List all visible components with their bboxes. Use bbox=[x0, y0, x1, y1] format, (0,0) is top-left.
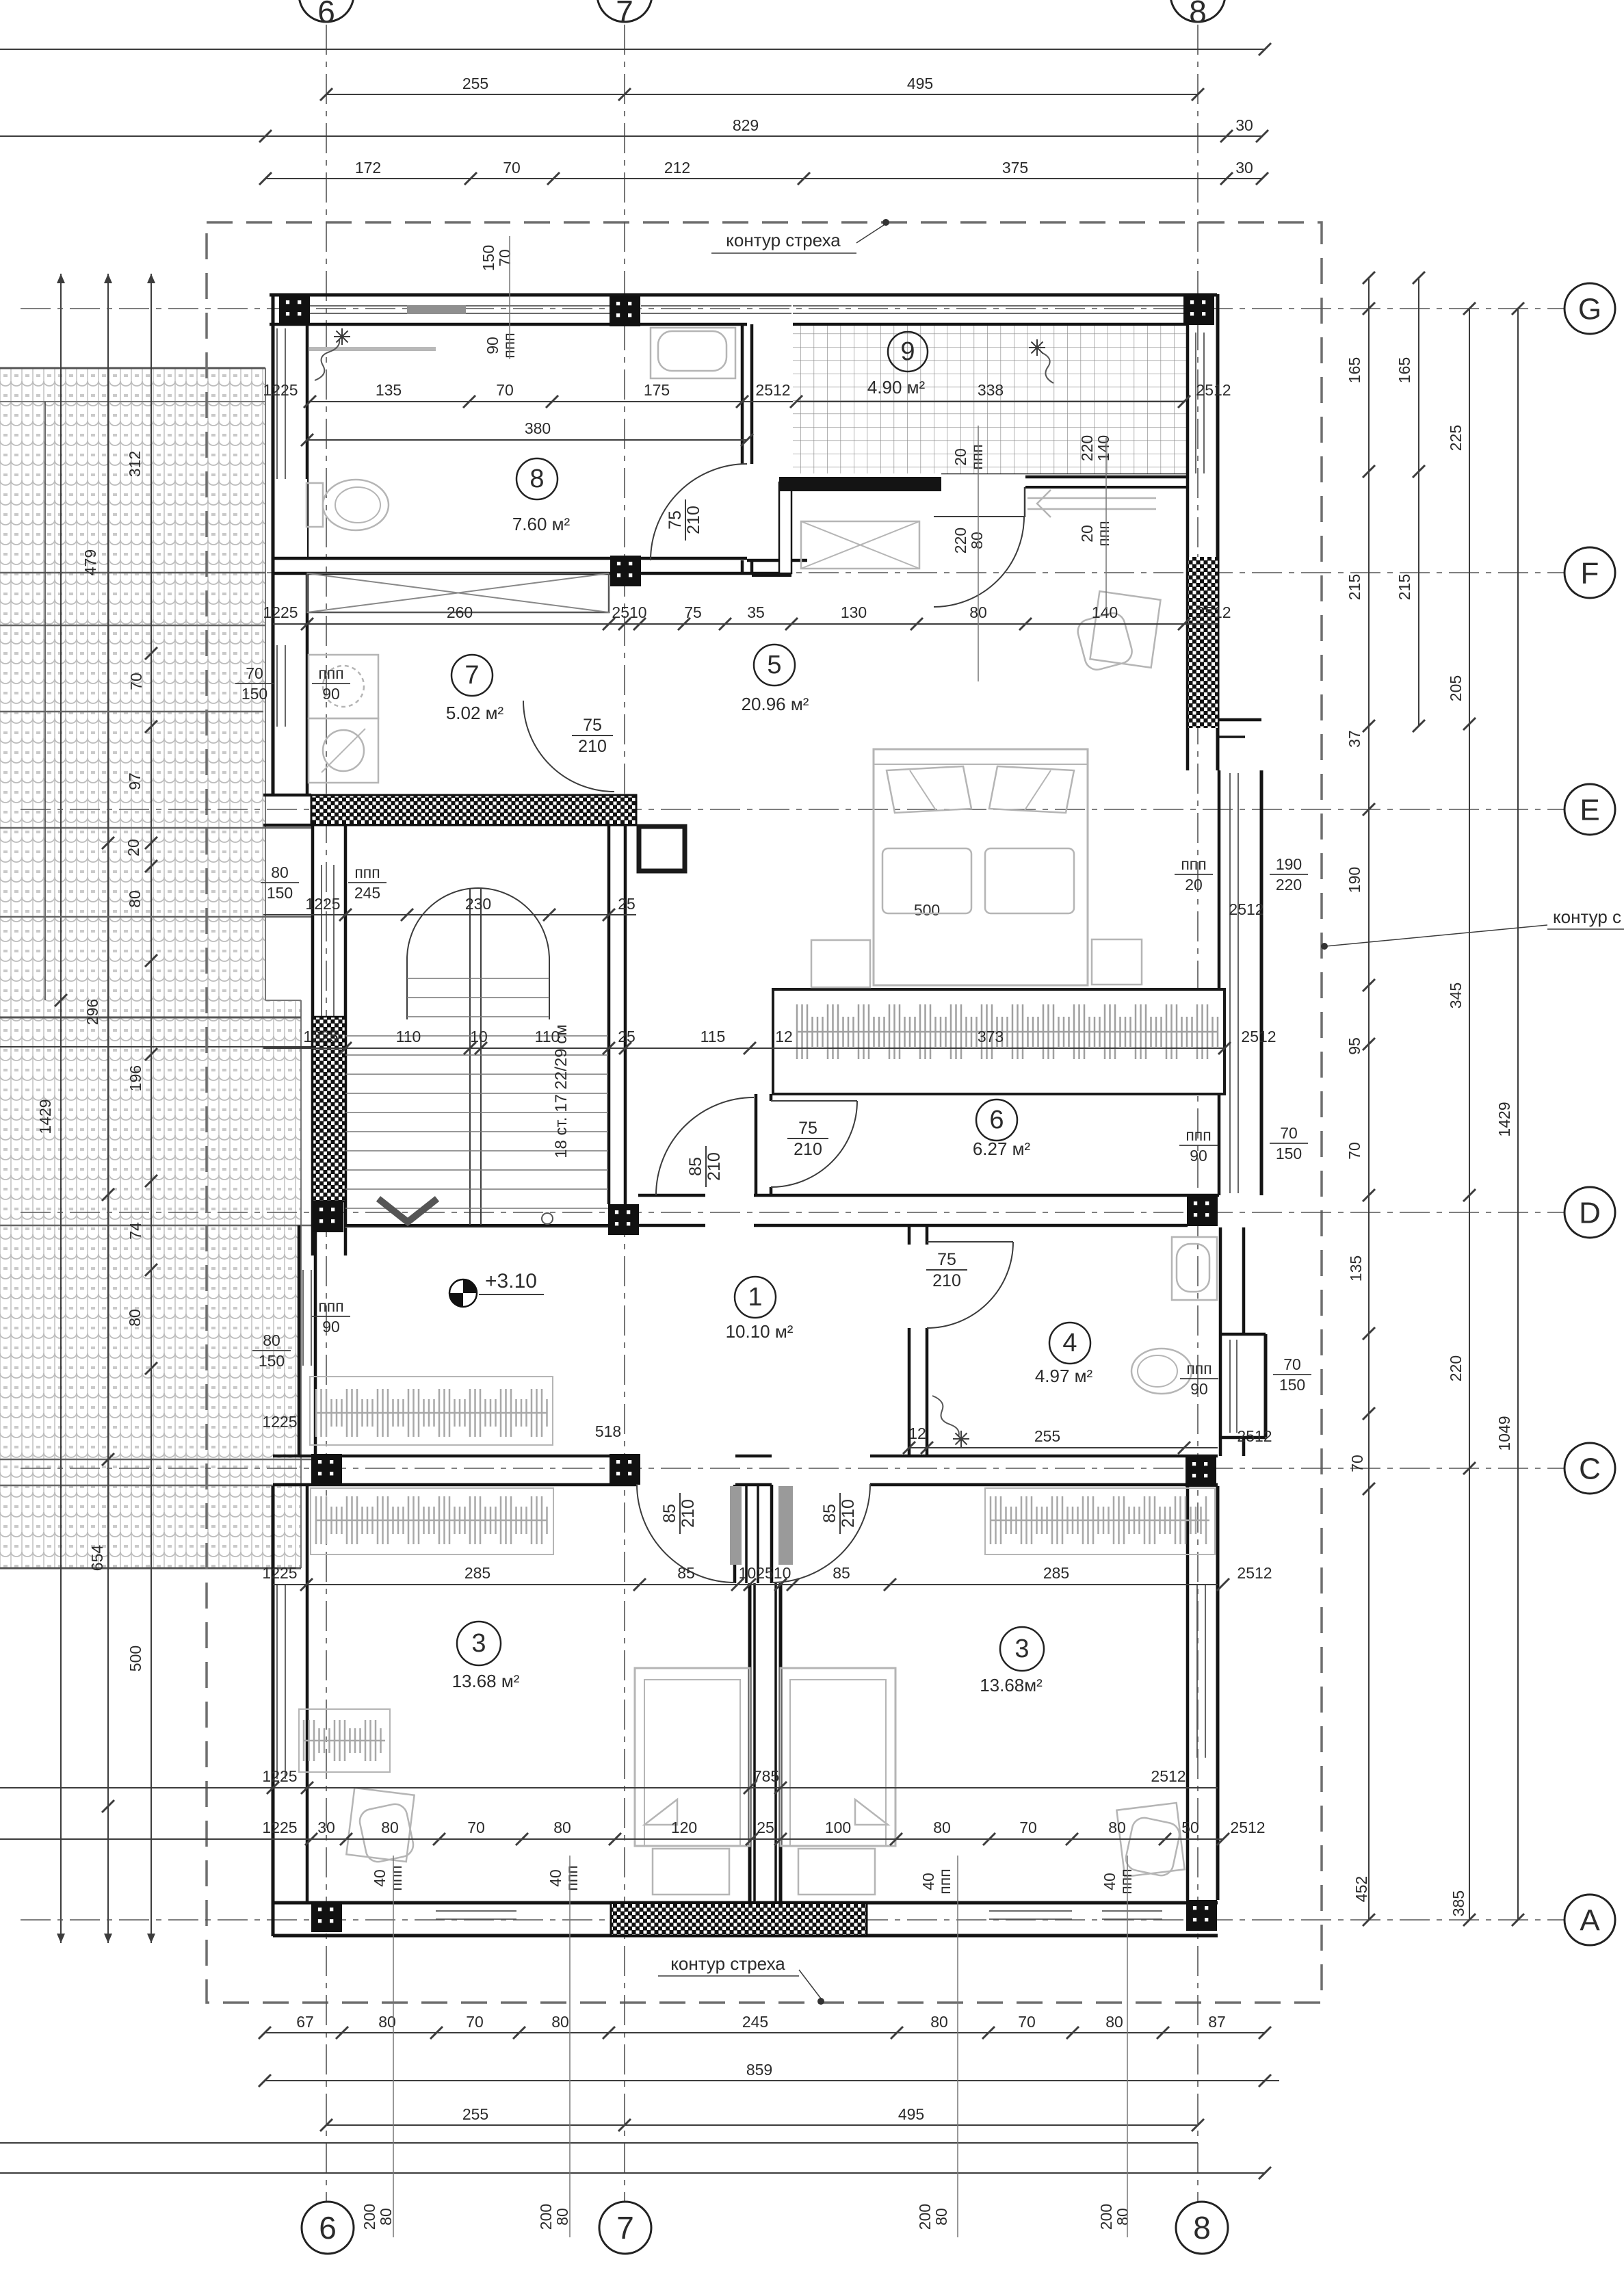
svg-text:215: 215 bbox=[1396, 574, 1413, 600]
svg-text:375: 375 bbox=[1002, 159, 1028, 177]
svg-text:35: 35 bbox=[747, 603, 765, 621]
svg-text:6: 6 bbox=[989, 1106, 1004, 1134]
svg-text:ппп: ппп bbox=[1095, 521, 1112, 546]
svg-text:4: 4 bbox=[1062, 1329, 1077, 1357]
svg-text:80: 80 bbox=[968, 532, 986, 549]
svg-text:контур стреха: контур стреха bbox=[726, 230, 841, 250]
svg-text:12: 12 bbox=[775, 1028, 793, 1045]
svg-text:80: 80 bbox=[933, 1819, 951, 1836]
svg-text:3: 3 bbox=[1014, 1635, 1029, 1663]
svg-text:495: 495 bbox=[898, 2105, 924, 2123]
svg-text:230: 230 bbox=[465, 895, 491, 913]
svg-text:12: 12 bbox=[908, 1424, 926, 1442]
svg-text:80: 80 bbox=[126, 1309, 144, 1327]
svg-text:1225: 1225 bbox=[263, 381, 298, 399]
svg-text:40: 40 bbox=[547, 1869, 564, 1887]
svg-text:1225: 1225 bbox=[262, 1819, 297, 1836]
svg-text:312: 312 bbox=[126, 451, 144, 477]
svg-text:2510: 2510 bbox=[612, 603, 646, 621]
svg-text:150: 150 bbox=[480, 245, 497, 271]
svg-text:785: 785 bbox=[753, 1767, 779, 1785]
svg-text:40: 40 bbox=[1101, 1873, 1118, 1890]
svg-text:75: 75 bbox=[583, 716, 602, 735]
svg-text:70: 70 bbox=[467, 1819, 485, 1836]
svg-text:75: 75 bbox=[798, 1119, 817, 1138]
svg-text:255: 255 bbox=[462, 2105, 488, 2123]
svg-text:210: 210 bbox=[705, 1152, 724, 1181]
svg-text:80: 80 bbox=[377, 2208, 395, 2226]
svg-text:80: 80 bbox=[930, 2013, 948, 2031]
svg-text:495: 495 bbox=[907, 75, 933, 92]
svg-text:30: 30 bbox=[317, 1819, 335, 1836]
svg-text:260: 260 bbox=[447, 603, 473, 621]
svg-text:67: 67 bbox=[296, 2013, 314, 2031]
svg-text:215: 215 bbox=[1346, 574, 1363, 600]
svg-text:ппп: ппп bbox=[1186, 1359, 1212, 1377]
svg-text:172: 172 bbox=[355, 159, 381, 177]
svg-text:1429: 1429 bbox=[36, 1099, 54, 1134]
svg-text:3: 3 bbox=[471, 1629, 486, 1658]
svg-text:E: E bbox=[1580, 793, 1599, 827]
svg-text:338: 338 bbox=[978, 381, 1004, 399]
svg-text:1429: 1429 bbox=[1495, 1102, 1513, 1136]
svg-text:80: 80 bbox=[1105, 2013, 1123, 2031]
svg-text:452: 452 bbox=[1352, 1876, 1370, 1902]
svg-text:1049: 1049 bbox=[1495, 1416, 1513, 1450]
svg-text:385: 385 bbox=[1450, 1890, 1467, 1916]
svg-text:120: 120 bbox=[671, 1819, 697, 1836]
svg-text:80: 80 bbox=[381, 1819, 399, 1836]
svg-text:6: 6 bbox=[317, 0, 335, 29]
svg-text:1225: 1225 bbox=[303, 1028, 338, 1045]
svg-text:2512: 2512 bbox=[1196, 603, 1231, 621]
svg-text:220: 220 bbox=[1447, 1355, 1465, 1381]
svg-text:80: 80 bbox=[263, 1331, 280, 1349]
svg-text:245: 245 bbox=[742, 2013, 768, 2031]
svg-text:150: 150 bbox=[241, 685, 267, 703]
svg-text:1225: 1225 bbox=[305, 895, 340, 913]
svg-text:20: 20 bbox=[1078, 525, 1096, 543]
svg-text:200: 200 bbox=[361, 2204, 378, 2230]
svg-text:859: 859 bbox=[746, 2061, 772, 2079]
svg-text:210: 210 bbox=[679, 1499, 698, 1528]
svg-text:70: 70 bbox=[127, 673, 145, 690]
svg-text:70: 70 bbox=[1346, 1142, 1363, 1160]
svg-text:7: 7 bbox=[616, 2210, 634, 2246]
svg-text:175: 175 bbox=[644, 381, 670, 399]
svg-text:2512: 2512 bbox=[1241, 1028, 1276, 1045]
svg-text:85: 85 bbox=[660, 1504, 679, 1523]
svg-text:110: 110 bbox=[535, 1028, 560, 1045]
svg-text:ппп: ппп bbox=[387, 1865, 405, 1890]
svg-text:85: 85 bbox=[820, 1504, 839, 1523]
svg-text:74: 74 bbox=[127, 1222, 144, 1240]
svg-text:205: 205 bbox=[1447, 675, 1465, 701]
svg-text:20: 20 bbox=[125, 839, 142, 857]
svg-text:2512: 2512 bbox=[1151, 1767, 1186, 1785]
svg-text:70: 70 bbox=[246, 664, 263, 682]
svg-text:80: 80 bbox=[553, 1819, 571, 1836]
svg-text:150: 150 bbox=[1279, 1376, 1305, 1394]
svg-text:ппп: ппп bbox=[500, 333, 518, 358]
svg-text:2512: 2512 bbox=[1230, 1819, 1265, 1836]
svg-text:90: 90 bbox=[322, 1318, 340, 1336]
svg-text:ппп: ппп bbox=[1186, 1126, 1211, 1144]
svg-text:190: 190 bbox=[1346, 867, 1363, 893]
svg-text:110: 110 bbox=[396, 1028, 421, 1045]
svg-text:25: 25 bbox=[757, 1819, 774, 1836]
svg-text:220: 220 bbox=[1078, 435, 1096, 461]
svg-text:ппп: ппп bbox=[354, 863, 380, 881]
svg-text:C: C bbox=[1579, 1452, 1601, 1485]
svg-text:135: 135 bbox=[1347, 1255, 1365, 1281]
svg-text:контур с: контур с bbox=[1553, 907, 1621, 927]
svg-text:контур стреха: контур стреха bbox=[670, 1953, 785, 1974]
svg-text:9: 9 bbox=[900, 337, 915, 366]
svg-text:212: 212 bbox=[664, 159, 690, 177]
svg-text:225: 225 bbox=[1447, 425, 1465, 451]
svg-text:210: 210 bbox=[839, 1499, 858, 1528]
svg-text:150: 150 bbox=[1276, 1145, 1302, 1162]
svg-text:479: 479 bbox=[81, 549, 99, 575]
svg-text:25: 25 bbox=[618, 895, 636, 913]
svg-text:40: 40 bbox=[371, 1869, 389, 1887]
svg-text:518: 518 bbox=[595, 1422, 621, 1440]
svg-text:8: 8 bbox=[1193, 2210, 1211, 2246]
svg-text:90: 90 bbox=[1190, 1380, 1208, 1398]
svg-text:255: 255 bbox=[462, 75, 488, 92]
svg-text:70: 70 bbox=[466, 2013, 484, 2031]
svg-text:6.27 м²: 6.27 м² bbox=[973, 1138, 1031, 1159]
svg-text:2512: 2512 bbox=[1237, 1564, 1272, 1582]
svg-text:150: 150 bbox=[267, 884, 293, 902]
svg-text:5.02 м²: 5.02 м² bbox=[446, 703, 504, 723]
svg-text:380: 380 bbox=[525, 419, 551, 437]
svg-text:ппп: ппп bbox=[563, 1865, 581, 1890]
svg-text:373: 373 bbox=[978, 1028, 1004, 1045]
svg-text:90: 90 bbox=[484, 337, 501, 354]
svg-text:87: 87 bbox=[1208, 2013, 1226, 2031]
svg-text:6: 6 bbox=[319, 2210, 337, 2246]
svg-text:ппп: ппп bbox=[318, 664, 343, 682]
svg-text:20: 20 bbox=[1185, 876, 1203, 894]
svg-text:210: 210 bbox=[684, 506, 703, 534]
svg-text:85: 85 bbox=[677, 1564, 695, 1582]
svg-text:80: 80 bbox=[1108, 1819, 1126, 1836]
svg-text:196: 196 bbox=[127, 1065, 144, 1091]
svg-text:7: 7 bbox=[464, 661, 479, 690]
svg-text:+3.10: +3.10 bbox=[485, 1270, 537, 1292]
svg-text:4.90 м²: 4.90 м² bbox=[867, 377, 926, 398]
svg-text:75: 75 bbox=[666, 510, 685, 530]
svg-text:140: 140 bbox=[1092, 603, 1118, 621]
svg-text:70: 70 bbox=[1018, 2013, 1036, 2031]
svg-text:80: 80 bbox=[271, 863, 289, 881]
svg-text:296: 296 bbox=[83, 999, 101, 1025]
svg-text:220: 220 bbox=[1276, 876, 1302, 894]
svg-text:13.68м²: 13.68м² bbox=[980, 1675, 1043, 1695]
svg-text:165: 165 bbox=[1396, 357, 1413, 383]
svg-text:30: 30 bbox=[1235, 159, 1253, 177]
svg-text:210: 210 bbox=[578, 737, 607, 756]
svg-text:1: 1 bbox=[748, 1283, 762, 1312]
svg-text:210: 210 bbox=[932, 1271, 961, 1290]
svg-text:40: 40 bbox=[919, 1873, 937, 1890]
svg-text:500: 500 bbox=[914, 901, 940, 919]
svg-text:4.97 м²: 4.97 м² bbox=[1035, 1366, 1093, 1386]
svg-text:G: G bbox=[1578, 292, 1601, 326]
svg-text:80: 80 bbox=[1114, 2208, 1131, 2226]
svg-text:85: 85 bbox=[686, 1157, 705, 1176]
svg-text:97: 97 bbox=[126, 772, 144, 790]
svg-text:ппп: ппп bbox=[1181, 855, 1206, 873]
svg-text:1225: 1225 bbox=[262, 1767, 297, 1785]
svg-text:80: 80 bbox=[551, 2013, 569, 2031]
svg-text:7.60 м²: 7.60 м² bbox=[512, 514, 571, 534]
svg-text:255: 255 bbox=[1034, 1427, 1060, 1445]
svg-text:70: 70 bbox=[503, 159, 521, 177]
svg-text:200: 200 bbox=[537, 2204, 555, 2230]
svg-text:70: 70 bbox=[496, 381, 514, 399]
svg-text:100: 100 bbox=[825, 1819, 851, 1836]
svg-text:ппп: ппп bbox=[936, 1869, 954, 1894]
svg-text:75: 75 bbox=[937, 1250, 956, 1269]
svg-text:200: 200 bbox=[1097, 2204, 1115, 2230]
svg-text:70: 70 bbox=[1283, 1355, 1301, 1373]
svg-text:75: 75 bbox=[684, 603, 702, 621]
svg-text:115: 115 bbox=[700, 1028, 726, 1045]
svg-text:ппп: ппп bbox=[968, 444, 986, 469]
svg-text:165: 165 bbox=[1346, 357, 1363, 383]
svg-text:80: 80 bbox=[932, 2208, 950, 2226]
svg-text:20.96 м²: 20.96 м² bbox=[742, 694, 809, 714]
svg-text:210: 210 bbox=[794, 1140, 822, 1159]
svg-text:345: 345 bbox=[1447, 983, 1465, 1009]
svg-text:80: 80 bbox=[126, 890, 144, 908]
svg-text:80: 80 bbox=[553, 2208, 571, 2226]
svg-text:135: 135 bbox=[376, 381, 402, 399]
svg-text:130: 130 bbox=[841, 603, 867, 621]
svg-text:1225: 1225 bbox=[262, 1564, 297, 1582]
svg-text:30: 30 bbox=[1235, 116, 1253, 134]
svg-text:10.10 м²: 10.10 м² bbox=[726, 1321, 794, 1342]
svg-text:2512: 2512 bbox=[1237, 1427, 1272, 1445]
svg-text:70: 70 bbox=[496, 249, 514, 267]
svg-text:50: 50 bbox=[1181, 1819, 1199, 1836]
svg-text:102510: 102510 bbox=[739, 1564, 791, 1582]
svg-text:70: 70 bbox=[1348, 1455, 1366, 1472]
svg-text:7: 7 bbox=[616, 0, 633, 29]
svg-text:140: 140 bbox=[1095, 435, 1112, 461]
svg-text:2512: 2512 bbox=[1196, 381, 1231, 399]
svg-text:ппп: ппп bbox=[318, 1297, 343, 1315]
svg-text:90: 90 bbox=[322, 685, 340, 703]
svg-text:829: 829 bbox=[733, 116, 759, 134]
svg-text:70: 70 bbox=[1019, 1819, 1037, 1836]
svg-text:1225: 1225 bbox=[262, 1413, 297, 1431]
svg-text:285: 285 bbox=[464, 1564, 490, 1582]
svg-text:285: 285 bbox=[1043, 1564, 1069, 1582]
svg-text:500: 500 bbox=[127, 1645, 144, 1671]
svg-text:D: D bbox=[1579, 1196, 1601, 1229]
svg-text:85: 85 bbox=[833, 1564, 850, 1582]
svg-text:220: 220 bbox=[952, 528, 969, 554]
svg-text:ппп: ппп bbox=[1117, 1869, 1135, 1894]
svg-text:37: 37 bbox=[1346, 730, 1363, 748]
svg-text:654: 654 bbox=[88, 1545, 106, 1572]
svg-text:10: 10 bbox=[470, 1028, 488, 1045]
svg-text:25: 25 bbox=[618, 1028, 636, 1045]
svg-text:1225: 1225 bbox=[263, 603, 298, 621]
svg-text:70: 70 bbox=[1280, 1124, 1298, 1142]
svg-text:13.68 м²: 13.68 м² bbox=[452, 1671, 520, 1691]
svg-text:F: F bbox=[1581, 556, 1599, 590]
svg-text:8: 8 bbox=[1189, 0, 1207, 29]
svg-text:150: 150 bbox=[259, 1352, 285, 1370]
svg-text:90: 90 bbox=[1190, 1147, 1207, 1164]
svg-text:2512: 2512 bbox=[1229, 900, 1263, 918]
svg-text:A: A bbox=[1580, 1903, 1600, 1937]
svg-text:2512: 2512 bbox=[755, 381, 790, 399]
svg-text:95: 95 bbox=[1346, 1037, 1363, 1055]
svg-text:190: 190 bbox=[1276, 855, 1302, 873]
svg-text:245: 245 bbox=[354, 884, 380, 902]
svg-text:5: 5 bbox=[767, 651, 781, 679]
svg-text:200: 200 bbox=[916, 2204, 934, 2230]
svg-text:8: 8 bbox=[529, 465, 544, 493]
svg-text:20: 20 bbox=[952, 448, 969, 466]
